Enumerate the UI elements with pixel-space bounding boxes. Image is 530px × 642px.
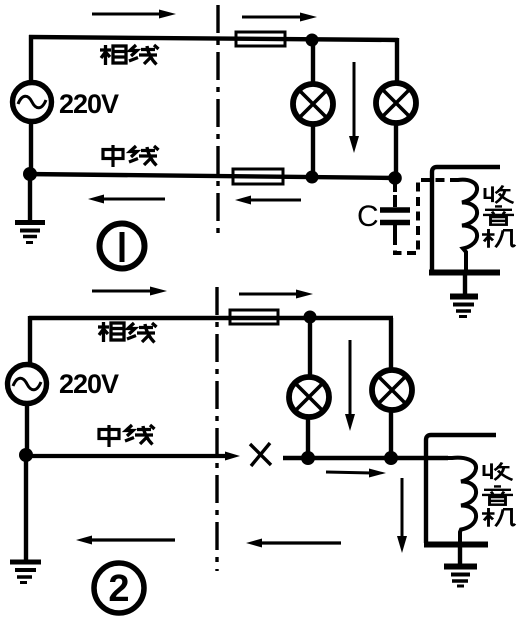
svg-text:C: C: [357, 200, 379, 233]
label X break: [250, 443, 271, 466]
node junction neutral-capacitor: [388, 171, 402, 185]
inductor coil radio 2: [446, 458, 476, 543]
svg-text:220V: 220V: [59, 89, 119, 119]
node junction neutral-lamp4: [384, 451, 398, 465]
radio box 2 outline: [424, 435, 496, 545]
current arrow top-right 1: [242, 13, 317, 22]
ground source 2: [10, 458, 41, 583]
label 收音机 circuit 1: [482, 186, 515, 248]
node junction neutral-source 1: [23, 167, 37, 181]
ground radio 1: [450, 274, 478, 317]
label C: [357, 200, 379, 233]
current arrow top-left 2: [92, 287, 167, 296]
label 收音机 circuit 2: [482, 463, 515, 527]
node junction neutral-lamp3: [301, 451, 315, 465]
current arrow top-left 1: [92, 10, 176, 19]
lamp L3: [289, 317, 329, 458]
current arrow under neutral left 1: [88, 195, 165, 204]
AC source G1: [13, 83, 52, 122]
divider dash-dot line 1: [216, 5, 219, 236]
fuse F1 phase: [236, 32, 285, 46]
lamp L4: [372, 318, 412, 458]
label 相线 circuit 2: [98, 322, 157, 343]
current arrow bottom-middle 2: [246, 539, 341, 548]
node junction phase-lamp1: [306, 34, 319, 47]
wire source top lead 1: [29, 35, 33, 82]
lamp L1: [293, 40, 333, 177]
fuse F3 phase: [230, 310, 278, 324]
wire source bottom lead 2: [25, 404, 29, 456]
label 相线 circuit 1: [100, 45, 159, 65]
label 中线 circuit 2: [99, 425, 155, 447]
current arrow between lamps 2: [345, 340, 355, 431]
wire dashed capacitor to radio 1: [395, 180, 457, 253]
AC source G2: [8, 365, 47, 404]
label 220V circuit 2: [59, 369, 119, 399]
current arrow under neutral right 1: [235, 196, 301, 205]
svg-text:2: 2: [108, 568, 129, 610]
current arrow top-right 2: [239, 290, 313, 299]
svg-text:220V: 220V: [59, 369, 119, 399]
fuse F2 neutral: [233, 169, 283, 184]
ground source 1: [15, 178, 45, 243]
wire phase line 1: [29, 37, 398, 40]
node junction phase-lamp3: [304, 311, 317, 324]
wire neutral line 2 left segment with arrow: [24, 452, 240, 461]
symbol circled 1: [100, 224, 145, 269]
lamp L2: [376, 38, 416, 177]
wire neutral line 2 right segment: [283, 456, 448, 460]
current arrow radio branch down: [397, 478, 407, 553]
inductor coil radio 1: [452, 180, 477, 271]
node junction neutral-source 2: [19, 448, 33, 462]
radio box 1 outline: [429, 167, 500, 273]
wire phase line 2: [29, 316, 393, 320]
wire neutral line 1: [24, 174, 397, 178]
label 中线 circuit 1: [103, 145, 159, 167]
divider dash-dot line 2: [215, 287, 218, 571]
current arrow bottom-left 2: [76, 536, 175, 545]
wire source top lead 2: [28, 316, 32, 363]
current arrow between lamps 1: [349, 62, 359, 153]
label 220V circuit 1: [59, 89, 119, 119]
node junction neutral-lamp1: [306, 171, 319, 184]
wire source bottom lead 1: [29, 122, 33, 176]
capacitor C1: [380, 184, 410, 236]
current arrow neutral right 2: [326, 469, 386, 478]
symbol circled 2: [94, 563, 144, 613]
ground radio 2: [444, 546, 477, 586]
